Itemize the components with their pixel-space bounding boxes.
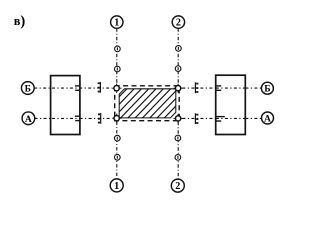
node 2-А: [174, 114, 183, 123]
axis line 2 (top segment): [177, 28, 179, 85]
axis line А (left segment): [35, 117, 112, 119]
weld mark left column row А: [75, 116, 81, 120]
bolt group left row Б: [98, 82, 101, 93]
svg-text:1: 1: [114, 18, 119, 29]
fastener point circle line2 upper1: [176, 46, 182, 52]
axis line Б (right segment): [182, 87, 261, 89]
weld mark left column row Б: [75, 86, 81, 90]
svg-text:А: А: [264, 114, 271, 125]
fastener point circle line2 lower2: [175, 155, 181, 161]
svg-text:А: А: [25, 114, 32, 125]
axis line 1 (top segment): [116, 28, 118, 85]
fastener point circle line1 upper2: [114, 66, 120, 72]
column left: [51, 76, 80, 135]
axis marker 2 top: [172, 16, 184, 29]
svg-text:2: 2: [175, 181, 180, 192]
axis marker Б left: [21, 82, 34, 95]
axis line А inside right column: [216, 117, 245, 119]
weld mark right column row Б: [215, 86, 221, 90]
axis marker А right: [262, 112, 274, 125]
axis marker А left: [22, 112, 35, 125]
bolt group right row Б: [195, 82, 199, 93]
axis line 2 (bottom segment): [177, 122, 179, 179]
axis marker Б right: [261, 82, 273, 95]
axis line 1 (bottom segment): [116, 122, 118, 179]
axis line Б inside right column: [216, 87, 245, 89]
svg-text:1: 1: [114, 181, 119, 192]
fastener point circle line1 upper1: [115, 46, 121, 52]
plate hatched area: [91, 89, 199, 118]
axis marker 1 bottom: [110, 179, 123, 192]
node 1-Б: [112, 84, 121, 93]
svg-text:в): в): [14, 13, 26, 29]
axis line Б inside left column: [52, 87, 80, 89]
plate dashed outline: [115, 86, 180, 121]
axis line А inside left column: [52, 117, 80, 119]
axis marker 1 top: [111, 16, 123, 29]
fastener point circle line1 lower2: [114, 154, 120, 160]
svg-text:Б: Б: [25, 84, 31, 95]
fastener point circle line1 lower1: [114, 135, 120, 141]
node 1-А: [112, 114, 121, 123]
axis line Б (left segment): [34, 87, 112, 89]
axis marker 2 bottom: [171, 179, 184, 192]
column right: [216, 75, 246, 134]
fastener point circle line2 lower1: [175, 135, 181, 141]
axis line А (right segment): [182, 117, 261, 119]
fastener point circle line2 upper2: [175, 66, 181, 72]
bolt group left row А: [98, 113, 101, 124]
weld mark right column row А: [215, 117, 224, 121]
svg-text:Б: Б: [264, 84, 270, 95]
bolt group right row А: [195, 113, 199, 124]
node 2-Б: [174, 84, 183, 93]
svg-text:2: 2: [176, 18, 181, 29]
